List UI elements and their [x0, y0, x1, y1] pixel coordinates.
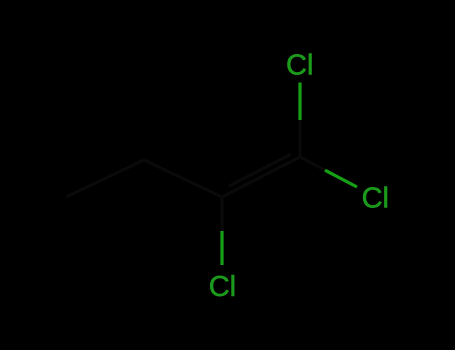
wire: bond C1-Cl top, carbon half (dark): [299, 120, 302, 157]
svg-text:Cl: Cl: [286, 50, 313, 82]
wire: double bond C2=C1 main line: [222, 157, 300, 197]
wire: bond C2-Cl bottom, carbon half (dark): [221, 197, 224, 231]
wire: bond C4-C3 (CH3-CH2): [66, 160, 144, 197]
wire: bond C3-C2 (CH2-C): [144, 160, 222, 197]
wire: bond C1-Cl top, chlorine half (green): [298, 83, 301, 121]
wire: bond C2-Cl bottom, chlorine half (green): [220, 231, 223, 265]
wire: double bond C2=C1 inner line: [229, 154, 291, 186]
svg-text:Cl: Cl: [209, 271, 236, 303]
wire: bond C1-Cl right, chlorine half (green): [325, 170, 357, 187]
svg-text:Cl: Cl: [362, 183, 389, 215]
wire: bond C1-Cl right, carbon half (dark): [300, 157, 325, 170]
